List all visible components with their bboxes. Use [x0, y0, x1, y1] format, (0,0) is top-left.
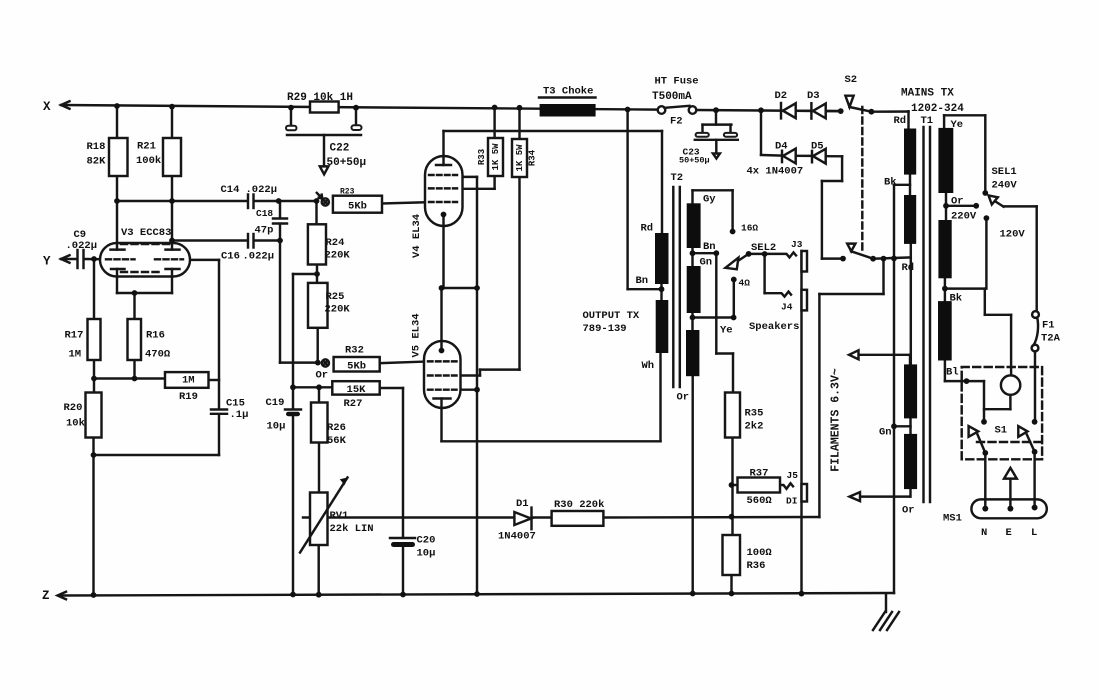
svg-text:1202-324: 1202-324	[911, 103, 964, 115]
svg-text:Speakers: Speakers	[749, 321, 799, 333]
svg-text:V4 EL34: V4 EL34	[411, 214, 423, 258]
svg-text:Rd: Rd	[902, 262, 915, 274]
svg-text:R30 220k: R30 220k	[554, 499, 604, 511]
svg-text:T1: T1	[921, 115, 934, 127]
svg-text:FILAMENTS 6.3V~: FILAMENTS 6.3V~	[830, 368, 843, 472]
svg-text:Wh: Wh	[642, 360, 655, 372]
svg-text:1K 5W: 1K 5W	[515, 144, 525, 172]
svg-text:C18: C18	[256, 208, 273, 219]
svg-text:.022µ: .022µ	[243, 251, 275, 263]
svg-text:V5 EL34: V5 EL34	[410, 313, 422, 357]
svg-text:Or: Or	[677, 392, 690, 404]
svg-text:Rd: Rd	[894, 115, 907, 127]
svg-text:Bk: Bk	[884, 177, 897, 189]
svg-text:220V: 220V	[951, 211, 977, 223]
svg-text:RV1: RV1	[330, 510, 349, 522]
svg-text:F1: F1	[1042, 320, 1055, 332]
svg-text:10µ: 10µ	[267, 421, 286, 433]
svg-text:R33: R33	[477, 149, 487, 165]
svg-text:C20: C20	[417, 535, 436, 547]
svg-text:R24: R24	[326, 237, 345, 249]
svg-text:C16: C16	[221, 251, 240, 263]
svg-text:Or: Or	[316, 370, 329, 382]
svg-text:Rd: Rd	[641, 223, 654, 235]
svg-text:4x 1N4007: 4x 1N4007	[747, 166, 804, 178]
svg-text:220K: 220K	[325, 304, 351, 316]
svg-text:D5: D5	[811, 141, 824, 153]
svg-text:Z: Z	[42, 589, 50, 603]
svg-text:470Ω: 470Ω	[145, 349, 171, 361]
svg-text:E: E	[1006, 527, 1012, 539]
svg-text:Or: Or	[902, 505, 915, 517]
svg-text:D1: D1	[516, 498, 529, 510]
svg-text:Bn: Bn	[636, 275, 649, 287]
svg-text:S2: S2	[845, 74, 858, 86]
svg-text:Gn: Gn	[879, 427, 892, 439]
svg-text:.022µ: .022µ	[66, 240, 98, 252]
svg-text:R21: R21	[137, 141, 156, 153]
svg-text:Bn: Bn	[703, 241, 716, 253]
svg-text:Y: Y	[43, 255, 51, 269]
svg-text:Or: Or	[951, 196, 964, 208]
svg-text:4Ω: 4Ω	[739, 278, 751, 289]
svg-text:OUTPUT TX: OUTPUT TX	[583, 310, 640, 322]
svg-text:C15: C15	[226, 398, 245, 410]
svg-text:1N4007: 1N4007	[498, 531, 536, 543]
svg-text:F2: F2	[670, 116, 683, 128]
svg-text:82K: 82K	[87, 156, 107, 168]
svg-text:N: N	[981, 527, 987, 539]
svg-text:Gy: Gy	[703, 194, 716, 206]
svg-text:SEL2: SEL2	[751, 242, 776, 254]
svg-text:Ye: Ye	[720, 325, 733, 337]
svg-text:DI: DI	[786, 496, 797, 507]
svg-text:50+50µ: 50+50µ	[327, 157, 367, 169]
svg-text:S1: S1	[995, 425, 1008, 437]
svg-text:Bl: Bl	[946, 367, 959, 379]
svg-text:R25: R25	[326, 291, 345, 303]
svg-text:56K: 56K	[327, 435, 347, 447]
svg-text:15K: 15K	[347, 384, 367, 396]
svg-text:R36: R36	[747, 560, 766, 572]
svg-text:R29 10k 1H: R29 10k 1H	[287, 92, 353, 104]
svg-text:V3 ECC83: V3 ECC83	[121, 227, 171, 239]
svg-text:J5: J5	[787, 470, 799, 481]
svg-text:220K: 220K	[325, 250, 351, 262]
svg-text:560Ω: 560Ω	[747, 495, 773, 507]
svg-text:2k2: 2k2	[745, 421, 764, 433]
svg-text:X: X	[43, 100, 51, 114]
svg-text:789-139: 789-139	[583, 323, 627, 335]
svg-text:Bk: Bk	[950, 293, 963, 305]
svg-text:100k: 100k	[136, 155, 161, 167]
svg-text:D3: D3	[807, 90, 820, 102]
svg-text:10µ: 10µ	[417, 548, 436, 560]
svg-text:22k LIN: 22k LIN	[330, 523, 374, 535]
svg-text:R27: R27	[344, 398, 363, 410]
svg-text:120V: 120V	[1000, 229, 1026, 241]
svg-text:5Kb: 5Kb	[347, 360, 366, 372]
svg-text:Ye: Ye	[951, 119, 964, 131]
svg-text:SEL1: SEL1	[992, 166, 1017, 178]
svg-text:C19: C19	[266, 397, 285, 409]
svg-text:J3: J3	[791, 239, 803, 250]
svg-text:R19: R19	[179, 391, 198, 403]
svg-text:50+50µ: 50+50µ	[679, 156, 710, 166]
svg-text:C14: C14	[221, 184, 240, 196]
svg-text:MAINS TX: MAINS TX	[901, 88, 954, 100]
svg-text:R37: R37	[750, 468, 769, 480]
svg-text:Gn: Gn	[700, 257, 713, 269]
svg-text:R35: R35	[745, 408, 764, 420]
svg-text:T2A: T2A	[1041, 333, 1061, 345]
svg-text:R16: R16	[146, 330, 165, 342]
svg-text:R18: R18	[87, 141, 106, 153]
svg-text:R32: R32	[345, 345, 364, 357]
svg-text:D4: D4	[775, 141, 788, 153]
svg-text:C22: C22	[330, 143, 350, 155]
svg-text:J4: J4	[781, 302, 793, 313]
svg-text:T3 Choke: T3 Choke	[543, 86, 593, 98]
svg-text:.1µ: .1µ	[230, 409, 249, 421]
svg-text:R26: R26	[327, 422, 346, 434]
svg-text:47p: 47p	[255, 225, 274, 237]
svg-text:R20: R20	[64, 402, 83, 414]
svg-text:D2: D2	[775, 90, 788, 102]
svg-text:1K 5W: 1K 5W	[491, 143, 501, 171]
svg-text:MS1: MS1	[943, 513, 962, 525]
svg-text:R23: R23	[340, 188, 355, 197]
svg-text:240V: 240V	[992, 180, 1018, 192]
svg-text:T500mA: T500mA	[652, 91, 692, 103]
svg-text:5Kb: 5Kb	[348, 200, 367, 212]
svg-text:16Ω: 16Ω	[741, 223, 758, 234]
svg-text:1M: 1M	[182, 375, 195, 387]
svg-text:.022µ: .022µ	[246, 184, 278, 196]
svg-text:10k: 10k	[66, 418, 85, 430]
svg-text:R17: R17	[65, 330, 84, 342]
svg-text:HT Fuse: HT Fuse	[655, 76, 699, 88]
svg-text:T2: T2	[671, 172, 684, 184]
svg-text:R34: R34	[527, 149, 537, 166]
svg-text:100Ω: 100Ω	[747, 547, 773, 559]
svg-text:1M: 1M	[69, 349, 82, 361]
svg-text:L: L	[1031, 527, 1037, 539]
